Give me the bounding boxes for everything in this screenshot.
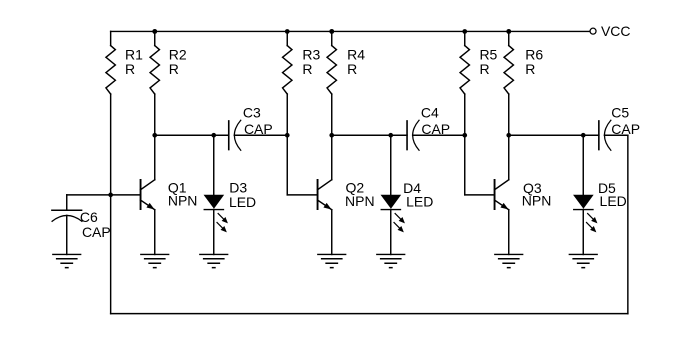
- svg-text:D3: D3: [229, 180, 247, 196]
- svg-text:R: R: [479, 61, 489, 77]
- svg-text:NPN: NPN: [345, 193, 375, 209]
- svg-text:CAP: CAP: [244, 121, 273, 137]
- svg-text:C5: C5: [611, 104, 629, 120]
- svg-text:C6: C6: [80, 209, 98, 225]
- svg-text:LED: LED: [229, 194, 256, 210]
- svg-text:R: R: [347, 61, 357, 77]
- svg-text:C4: C4: [421, 104, 439, 120]
- svg-text:CAP: CAP: [611, 121, 640, 137]
- svg-text:LED: LED: [600, 193, 627, 209]
- svg-text:CAP: CAP: [421, 121, 450, 137]
- svg-text:VCC: VCC: [601, 23, 631, 39]
- svg-text:R: R: [125, 61, 135, 77]
- svg-text:R: R: [525, 61, 535, 77]
- svg-text:CAP: CAP: [82, 224, 111, 240]
- svg-text:NPN: NPN: [522, 193, 552, 209]
- svg-text:R: R: [302, 61, 312, 77]
- svg-text:R: R: [169, 61, 179, 77]
- svg-text:LED: LED: [406, 193, 433, 209]
- svg-text:NPN: NPN: [168, 193, 198, 209]
- svg-text:C3: C3: [243, 104, 261, 120]
